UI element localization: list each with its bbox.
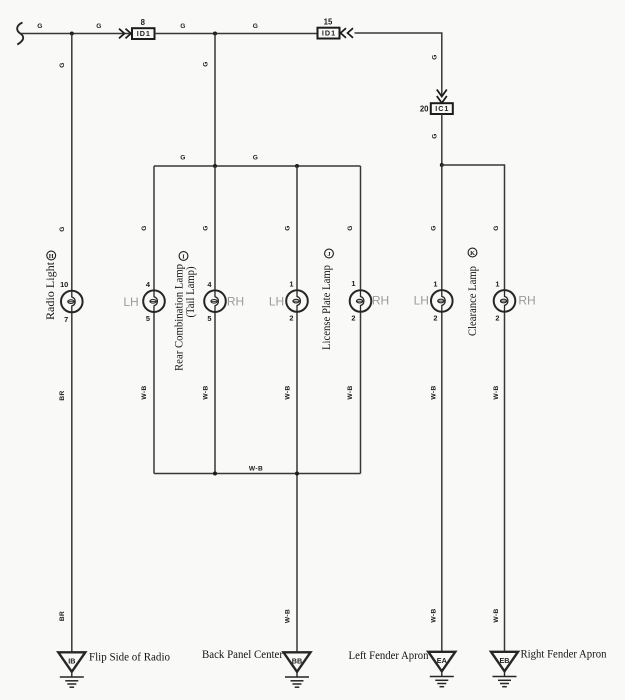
lamp: clearance RH bulb [494,290,516,312]
value label G (vertical, below IC1) [432,133,439,139]
svg-text:7: 7 [64,315,68,324]
connector IC1 (pin 20) [431,103,453,114]
pin number 5 (tail RH bottom) [207,314,211,323]
lamp: clearance LH bulb [431,290,453,312]
ground IB (Flip Side of Radio) [58,652,85,687]
svg-text:EB: EB [500,656,510,665]
svg-text:G: G [347,225,354,231]
pin number 1 (license LH top) [289,280,293,289]
pin number 10 (radio light top) [60,280,68,289]
value label G (tail RH) [203,225,210,231]
node: junction box bottom x215 [213,472,217,476]
wire: lamp group box top edge [154,165,361,167]
pin number 20 [420,104,429,113]
label RH (tail) [227,295,244,309]
pin number 2 (clearance RH bottom) [495,314,499,323]
pin number 7 (radio light bottom) [64,315,68,324]
wire: box right edge lower [360,312,362,474]
svg-text:W-B: W-B [430,385,437,399]
value label G (clearance LH) [430,225,437,231]
svg-text:W-B: W-B [249,466,263,473]
value label G (box top edge right) [253,155,259,162]
value label W-B (tail LH) [141,385,148,399]
svg-text:10: 10 [60,280,68,289]
value label G (tail LH) [141,225,148,231]
ground name: Right Fender Apron [521,647,607,661]
svg-text:2: 2 [433,314,437,323]
svg-text:BR: BR [59,390,66,400]
lamp: tail RH bulb [204,290,226,312]
svg-text:BR: BR [59,611,66,621]
value label G (license RH) [347,225,354,231]
wire: clearance rail to RH branch [442,165,505,290]
label RH (license) [372,294,389,308]
svg-text:W-B: W-B [285,609,292,623]
node: junction radio light tap [70,32,74,36]
svg-text:K: K [470,250,475,257]
node: junction box top x215 [213,164,217,168]
svg-text:W-B: W-B [493,608,500,622]
wire: clearance LH branch lower [441,311,443,652]
svg-text:1: 1 [351,279,355,288]
svg-text:G: G [430,225,437,231]
svg-text:W-B: W-B [141,385,148,399]
svg-text:15: 15 [324,18,333,27]
pin number 2 (license RH bottom) [351,314,355,323]
label LH (clearance) [414,293,429,307]
wire: radio light branch lower (BR) [71,312,73,653]
connector arrows out of ID1 pin 15 [341,28,354,38]
svg-text:RH: RH [518,293,535,307]
svg-text:1: 1 [433,280,437,289]
label LH (tail) [123,295,138,309]
svg-text:LH: LH [269,295,284,309]
svg-text:5: 5 [146,314,150,323]
pin number 2 (clearance LH bottom) [433,314,437,323]
svg-text:G: G [96,23,102,30]
svg-text:G: G [37,23,43,30]
wire: tail lamp feed down to group box [214,34,216,167]
svg-text:W-B: W-B [493,385,500,399]
pin number 2 (license LH bottom) [289,314,293,323]
value label BR (radio light lower) [59,611,66,621]
svg-text:IC1: IC1 [435,104,449,113]
wire: clearance RH branch lower [504,311,506,652]
svg-text:LH: LH [414,293,429,307]
wire break symbol (feed continuation) [17,23,23,45]
ground BB (Back Panel Center) [284,652,311,687]
ground name: Back Panel Center [202,647,283,661]
value label G (tail lamp feed) [203,61,210,67]
svg-text:8: 8 [141,18,146,27]
svg-text:License Plate Lamp: License Plate Lamp [319,265,333,350]
svg-text:2: 2 [495,314,499,323]
node I (circled) [179,252,188,261]
label RH (clearance) [518,293,535,307]
pin number 1 (clearance RH top) [495,280,499,289]
svg-text:W-B: W-B [347,385,354,399]
wire: main G feed rail, break to connector ID1 [21,33,132,35]
component label: (Tail Lamp) [183,266,197,317]
svg-text:LH: LH [123,295,138,309]
svg-text:BB: BB [292,656,302,665]
pin number 1 (license RH top) [351,279,355,288]
node: junction box top x297 [295,164,299,168]
value label G (box top edge left) [180,155,186,162]
lamp: radio light bulb [61,291,83,313]
svg-text:G: G [180,23,186,30]
component label: Clearance Lamp [465,266,479,336]
lamp: license LH bulb [286,290,308,312]
svg-text:W-B: W-B [430,608,437,622]
pin number 15 [324,18,333,27]
ground EA (Left Fender Apron) [428,652,455,687]
pin number 4 (tail LH top) [146,280,151,289]
node J (circled) [325,249,334,258]
svg-text:G: G [59,62,66,68]
wire: IC1 down to clearance feed junction [441,114,443,165]
lamp: tail LH bulb [143,290,165,312]
value label W-B (clearance RH lower) [493,608,500,622]
svg-text:G: G [59,226,66,232]
wire: box left edge upper (tail LH) [153,166,155,291]
wire: radio light branch (G) [71,34,73,291]
value label W-B (license RH) [347,385,354,399]
value label G (rail segment 1) [37,23,43,30]
svg-text:ID1: ID1 [322,29,336,38]
svg-text:Right Fender Apron: Right Fender Apron [521,647,607,661]
svg-text:G: G [493,225,500,231]
svg-text:W-B: W-B [285,385,292,399]
node: junction tail lamp feed tap [213,32,217,36]
ground name: Left Fender Apron [349,648,429,662]
pin number 4 (tail RH top) [207,280,212,289]
value label W-B (clearance LH) [430,385,437,399]
svg-text:G: G [432,54,439,60]
svg-text:RH: RH [227,295,244,309]
node K (circled) [468,248,477,257]
component label: Radio Light [43,261,57,320]
value label G (radio light wire lower) [59,226,66,232]
pin number 8 [141,18,146,27]
node: junction box bottom x297 [295,472,299,476]
connector arrows into IC1 [437,90,447,104]
svg-text:G: G [180,155,186,162]
svg-text:G: G [141,225,148,231]
value label W-B (clearance LH lower) [430,608,437,622]
svg-text:1: 1 [289,280,293,289]
value label G (clearance RH) [493,225,500,231]
svg-text:H: H [49,253,54,260]
svg-text:G: G [253,23,259,30]
value label W-B (license LH) [285,385,292,399]
svg-text:Back Panel Center: Back Panel Center [202,647,283,661]
svg-text:2: 2 [351,314,355,323]
svg-text:W-B: W-B [203,385,210,399]
pin number 1 (clearance LH top) [433,280,437,289]
pin number 5 (tail LH bottom) [146,314,150,323]
svg-text:G: G [432,133,439,139]
wire: rail from ID1 pin 15 to right corner, down to IC1 [355,33,442,96]
svg-text:Flip Side of Radio: Flip Side of Radio [89,650,170,664]
connector ID1 (pin 8) [132,28,155,39]
value label W-B (license LH lower) [285,609,292,623]
svg-text:ID1: ID1 [137,29,151,38]
svg-text:5: 5 [207,314,211,323]
wire: box bottom edge (W-B bus) [154,473,361,475]
value label W-B (box bottom bus) [249,466,263,473]
value label G (rail segment 4) [253,23,259,30]
value label G (radio light wire upper) [59,62,66,68]
wire: tail RH branch lower [214,312,216,474]
svg-text:Clearance Lamp: Clearance Lamp [465,266,479,336]
node: clearance lamp feed junction [440,163,444,167]
wire: box right edge upper (license RH) [360,166,362,291]
wire: box left edge lower [153,312,155,474]
wire: rail from ID1 to ID1 pin 15 [155,33,318,35]
value label W-B (clearance RH) [493,385,500,399]
svg-text:IB: IB [68,656,75,665]
connector arrows into ID1 [119,29,131,39]
value label G (rail segment 2) [96,23,102,30]
component label: Rear Combination Lamp [172,264,186,371]
value label G (vertical, above IC1) [432,54,439,60]
value label W-B (tail RH) [203,385,210,399]
svg-text:Radio Light: Radio Light [43,261,57,320]
svg-text:G: G [203,225,210,231]
ground name: Flip Side of Radio [89,650,170,664]
svg-text:1: 1 [495,280,499,289]
label LH (license) [269,295,284,309]
svg-text:RH: RH [372,294,389,308]
wire: license LH branch lower (continues to ground) [296,312,298,653]
ground EB (Right Fender Apron) [491,652,518,687]
svg-text:2: 2 [289,314,293,323]
svg-text:(Tail Lamp): (Tail Lamp) [183,266,197,317]
value label G (rail segment 3) [180,23,186,30]
wire: clearance LH branch upper [441,165,443,290]
svg-text:EA: EA [437,656,447,665]
connector ID1 (pin 15) [318,28,340,39]
component label: License Plate Lamp [319,265,333,350]
svg-text:Left Fender Apron: Left Fender Apron [349,648,429,662]
lamp: license RH bulb [350,290,372,312]
node H (circled) [47,251,56,260]
wire: license LH branch upper [296,166,298,291]
value label G (license LH) [285,225,292,231]
svg-text:G: G [203,61,210,67]
svg-text:G: G [285,225,292,231]
wire: tail RH branch upper [214,166,216,291]
svg-text:20: 20 [420,104,429,113]
value label BR (radio light upper) [59,390,66,400]
svg-text:G: G [253,155,259,162]
svg-text:J: J [327,251,330,258]
